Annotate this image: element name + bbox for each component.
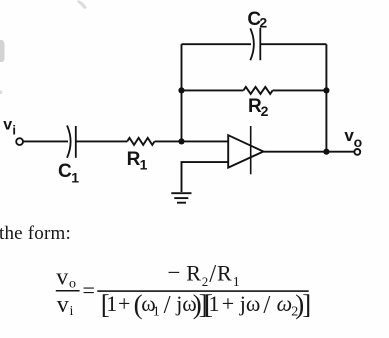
svg-text:=: =: [83, 277, 95, 302]
svg-text:i: i: [70, 304, 74, 319]
svg-text:]: ]: [302, 290, 311, 320]
svg-text:i: i: [12, 123, 16, 138]
wire input to C1: [23, 140, 68, 142]
caption: the form:: [0, 223, 71, 244]
svg-text:−: −: [168, 260, 181, 285]
svg-text:1: 1: [106, 291, 117, 316]
svg-text:C: C: [58, 161, 72, 182]
equation: equals sign: [83, 277, 95, 302]
svg-text:/: /: [164, 291, 171, 318]
node junction at inverting input: [178, 138, 184, 144]
wire R2 right lead: [273, 89, 327, 91]
svg-text:1: 1: [153, 305, 160, 320]
svg-text:/: /: [209, 261, 216, 288]
svg-text:v: v: [56, 265, 68, 291]
svg-text:o: o: [354, 134, 363, 150]
wire C2 to top right corner: [260, 43, 326, 45]
capacitor C2: [250, 28, 260, 60]
svg-text:v: v: [57, 292, 69, 318]
label C2: [247, 9, 267, 31]
svg-text:jω: jω: [239, 291, 261, 316]
label vo: [344, 126, 362, 150]
equation: main fraction bar: [97, 290, 308, 292]
junction R2 right: [323, 87, 329, 93]
svg-text:/: /: [263, 291, 270, 318]
equation: numerator -R2/R1: [168, 260, 240, 290]
svg-text:R: R: [217, 261, 232, 286]
svg-text:1: 1: [140, 157, 148, 173]
junction output node: [323, 149, 329, 155]
wire top left to C2: [182, 43, 252, 45]
svg-text:the form:: the form:: [0, 223, 71, 244]
svg-text:v: v: [3, 117, 12, 134]
label R2: [248, 96, 269, 119]
svg-text:+: +: [222, 291, 234, 316]
label R1: [127, 149, 148, 173]
junction R2 left: [178, 87, 184, 93]
equation: vo over vi: [56, 265, 80, 319]
equation: denominator [1+(w1/jw)][1+jw/w2)]: [101, 290, 311, 320]
svg-text:1: 1: [233, 275, 240, 290]
svg-text:R: R: [186, 261, 201, 286]
svg-text:ω: ω: [277, 291, 293, 316]
wire op-amp output: [263, 151, 354, 153]
ground: [171, 193, 191, 203]
svg-text:o: o: [69, 276, 76, 291]
terminal vi: [16, 138, 23, 145]
op-amp U1: [228, 126, 263, 174]
label vi: [3, 117, 16, 138]
wire R2 left lead: [182, 89, 244, 91]
wire C1 to R1: [76, 140, 128, 142]
svg-text:R: R: [127, 149, 141, 170]
label C1: [58, 161, 79, 185]
wire R1 to op-amp inverting input: [155, 140, 229, 142]
svg-text:2: 2: [259, 15, 267, 31]
resistor R1: [127, 138, 154, 145]
svg-text:2: 2: [202, 274, 209, 289]
capacitor C1: [67, 126, 76, 158]
wire right vertical feedback: [325, 44, 327, 152]
svg-text:2: 2: [261, 103, 269, 119]
terminal vo: [354, 149, 360, 155]
svg-text:1: 1: [209, 291, 220, 316]
svg-text:+: +: [118, 291, 130, 316]
svg-text:1: 1: [71, 169, 79, 185]
wire left vertical feedback: [181, 44, 183, 141]
resistor R2: [243, 87, 272, 94]
wire non-inverting input to ground: [182, 162, 229, 192]
